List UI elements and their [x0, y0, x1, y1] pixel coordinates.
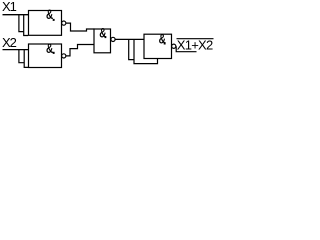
wire U4 output below label [176, 46, 196, 51]
wire U3 tied-input ladder to U4 bottom [129, 39, 158, 63]
NAND gate U3 box [94, 29, 111, 53]
wire X1 tied-input ladder to U1 bottom [19, 15, 28, 36]
wire U3 output to U4 upper input [115, 38, 143, 40]
wire U2 output to U3 lower input [66, 45, 95, 56]
dot after & U4 [164, 42, 166, 44]
NAND gate U2 box [29, 44, 62, 68]
inversion bubble U2 [62, 54, 66, 58]
inversion bubble U4 [172, 44, 176, 48]
dot after & U3 [105, 36, 107, 38]
svg-text:&: & [99, 26, 106, 41]
svg-text:X2: X2 [2, 35, 17, 50]
wire X1 input [3, 14, 29, 16]
wire U1 output staircase to U3 upper input [66, 23, 95, 31]
NAND gate U4 box [144, 34, 172, 58]
svg-text:&: & [46, 41, 53, 56]
wire X2 input [3, 49, 29, 51]
svg-text:X1+X2: X1+X2 [177, 38, 213, 53]
inversion bubble U3 [111, 37, 115, 41]
svg-text:&: & [46, 7, 53, 22]
dot after & U2 [53, 52, 55, 54]
svg-text:X1: X1 [2, 0, 17, 14]
negation overline of output label [177, 38, 214, 40]
inversion bubble U1 [62, 21, 66, 25]
wire X2 tied-input ladder to U2 bottom [19, 50, 28, 68]
dot after & U1 [53, 19, 55, 21]
NAND gate U1 box [29, 11, 62, 36]
